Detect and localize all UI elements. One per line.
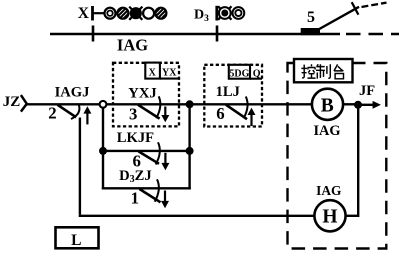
tag box YX bottom edge (160, 78, 179, 80)
contact 1LJ arc (244, 97, 248, 119)
console label char 台 (334, 64, 344, 78)
svg-text:D3ZJ: D3ZJ (119, 168, 152, 185)
relay box 1LJ dashed (204, 65, 262, 127)
lamp B (312, 89, 343, 120)
insulated joint at D3 (216, 26, 219, 42)
switch 5 reverse branch (318, 7, 360, 30)
signal X lamp 5 hatched circle (153, 5, 169, 21)
console label char 制 (316, 64, 330, 78)
insulated joint at X (92, 26, 95, 42)
junction dot LKJF left (99, 147, 107, 155)
wire ladder right vertical (188, 104, 190, 189)
svg-text:1LJ: 1LJ (216, 84, 240, 100)
svg-text:IAG: IAG (313, 123, 340, 139)
signal X lamp 2 hatched circle (115, 5, 131, 21)
track line IAG (solid rail) (50, 33, 340, 36)
signal X mast (91, 6, 94, 21)
svg-text:X: X (149, 68, 157, 79)
contact YXJ down arrow (161, 107, 169, 123)
svg-text:H: H (322, 207, 337, 228)
tag box X (145, 63, 160, 79)
switch 5 branch dotted continuation (362, 3, 387, 7)
lamp H (314, 200, 345, 231)
svg-text:X: X (78, 5, 90, 22)
wire main bus right of B (343, 103, 358, 105)
switch 5 branch tick (352, 2, 359, 15)
contact IAGJ blade (58, 105, 77, 118)
console box dashed 控制台 (288, 63, 387, 249)
wire bottom return to lamp H (79, 215, 315, 217)
console label char 控 (301, 64, 315, 78)
signal X lamp 4 open circle (143, 8, 154, 19)
signal D3 mast (215, 6, 218, 21)
node open junction (100, 101, 107, 108)
junction dot JF (354, 101, 362, 109)
contact D3ZJ arc (155, 179, 159, 201)
contact LKJF arc (156, 142, 160, 164)
svg-text:L: L (71, 232, 81, 249)
svg-text:IAG: IAG (117, 35, 148, 54)
svg-text:B: B (321, 95, 334, 116)
svg-text:YXJ: YXJ (128, 85, 156, 101)
contact 1LJ blade (226, 105, 247, 119)
svg-text:5: 5 (307, 9, 315, 26)
signal X lamp 1 double circle (105, 8, 116, 19)
signal X mast arm (94, 12, 105, 14)
contact D3ZJ down arrow (161, 191, 169, 209)
contact D3ZJ blade (140, 189, 161, 202)
svg-text:JZ: JZ (3, 94, 21, 110)
tag box Q bottom edge (250, 78, 262, 80)
contact YXJ arc (156, 96, 160, 118)
svg-text:1: 1 (131, 188, 139, 207)
box L (56, 227, 99, 248)
svg-text:IAG: IAG (316, 183, 342, 198)
track line dashed continuation (346, 33, 399, 36)
wire branch D3ZJ row (102, 187, 191, 189)
contact IAGJ up arrow (83, 106, 91, 124)
tag box 5DG (229, 65, 250, 79)
wire lamp H to riser (345, 215, 358, 217)
junction dot main bus right of YXJ (186, 100, 194, 108)
svg-text:5DG: 5DG (229, 68, 249, 79)
switch 5 body (301, 28, 320, 35)
wire ladder left vertical (102, 108, 104, 190)
svg-text:3: 3 (129, 104, 137, 123)
junction dot LKJF right (186, 147, 194, 155)
signal D3 lamp 2 double circle (233, 7, 245, 19)
wire main bus (27, 103, 313, 105)
contact 1LJ up arrow (248, 108, 256, 126)
wire riser H to JF junction (357, 105, 359, 217)
contact YXJ blade (138, 105, 160, 119)
svg-text:IAGJ: IAGJ (55, 84, 90, 100)
contact LKJF down arrow (161, 153, 169, 170)
terminal JF arrow (358, 101, 381, 109)
svg-text:LKJF: LKJF (117, 130, 154, 146)
svg-text:6: 6 (216, 104, 224, 123)
svg-text:Q: Q (253, 68, 261, 79)
signal D3 lamp 1 filled dot circle with cross (218, 6, 231, 19)
relay box YXJ dashed (113, 63, 179, 127)
svg-text:JF: JF (359, 83, 375, 99)
terminal JZ chevron (21, 95, 27, 112)
signal X lamp 3 filled circle with cross (129, 7, 142, 20)
svg-text:D3: D3 (194, 8, 209, 25)
svg-text:2: 2 (48, 104, 56, 123)
contact LKJF blade (139, 151, 160, 163)
console label box (294, 59, 353, 82)
wire branch LKJF row (103, 150, 190, 152)
contact IAGJ arc (71, 105, 79, 119)
wire IAGJ drop to bottom return (79, 118, 81, 215)
svg-text:YX: YX (162, 68, 177, 79)
